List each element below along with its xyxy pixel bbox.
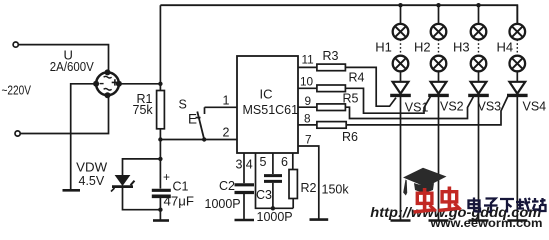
svg-text:2: 2 [223,126,230,140]
svg-text:1: 1 [223,94,230,108]
svg-text:VDW: VDW [76,161,107,175]
svg-text:VS3: VS3 [478,100,502,114]
svg-text:R4: R4 [349,71,365,85]
svg-text:47μF: 47μF [164,195,195,209]
svg-text:4: 4 [246,158,253,172]
svg-text:R3: R3 [323,49,339,63]
svg-text:8: 8 [304,112,311,126]
svg-text:VS2: VS2 [440,100,464,114]
svg-text:VS1: VS1 [405,101,429,115]
svg-text:+: + [163,170,170,184]
svg-text:3: 3 [236,158,243,172]
svg-text:H3: H3 [453,40,470,55]
svg-text:2A/600V: 2A/600V [50,60,95,74]
svg-text:150k: 150k [322,183,350,197]
svg-text:7: 7 [305,133,312,147]
svg-text:C2: C2 [219,179,235,193]
svg-text:S: S [179,98,187,112]
svg-text:VS4: VS4 [523,100,547,114]
svg-text:75k: 75k [133,103,154,117]
svg-text:10: 10 [300,75,314,89]
svg-text:C3: C3 [256,188,272,202]
svg-text:~220V: ~220V [2,84,32,98]
svg-text:9: 9 [305,94,312,108]
svg-text:6: 6 [281,155,288,169]
svg-text:C1: C1 [173,180,189,194]
svg-text:IC: IC [260,87,273,102]
svg-text:R5: R5 [343,92,359,106]
svg-text:R6: R6 [342,130,358,144]
svg-text:H2: H2 [414,40,431,55]
svg-text:R2: R2 [301,181,317,195]
svg-text:www.eeworm.com: www.eeworm.com [429,216,542,229]
svg-text:11: 11 [302,53,314,67]
svg-text:5: 5 [260,155,267,169]
svg-text:MS51C61: MS51C61 [243,103,299,117]
svg-text:4.5V: 4.5V [79,174,105,188]
svg-text:H4: H4 [497,40,514,55]
svg-text:1000P: 1000P [205,197,241,211]
svg-text:1000P: 1000P [257,210,293,224]
svg-text:H1: H1 [375,40,392,55]
svg-text:E: E [188,112,197,127]
